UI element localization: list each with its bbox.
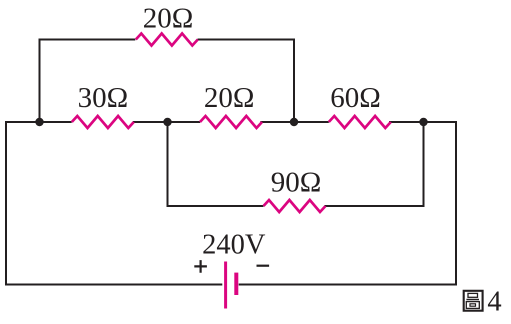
svg-text:30Ω: 30Ω [78,82,129,114]
svg-text:240V: 240V [202,230,266,261]
svg-text:90Ω: 90Ω [271,166,322,198]
svg-text:4: 4 [487,287,501,318]
svg-text:20Ω: 20Ω [143,2,194,34]
svg-text:20Ω: 20Ω [204,82,255,114]
svg-text:60Ω: 60Ω [330,82,381,114]
